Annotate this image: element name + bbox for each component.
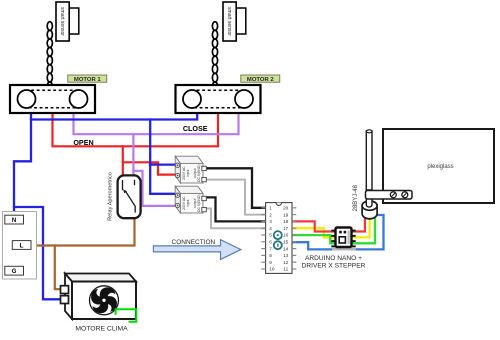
svg-text:19: 19 [283, 212, 289, 217]
svg-text:14: 14 [283, 246, 289, 251]
svg-text:13: 13 [283, 253, 289, 258]
svg-text:3: 3 [269, 219, 272, 224]
svg-text:4: 4 [269, 226, 272, 231]
svg-text:MOTOR 2: MOTOR 2 [247, 77, 274, 83]
svg-text:17: 17 [283, 226, 289, 231]
svg-text:10: 10 [269, 267, 275, 272]
svg-text:MOTOR 1: MOTOR 1 [74, 77, 101, 83]
svg-text:DC 5(GND): DC 5(GND) [197, 194, 201, 212]
svg-text:input: input [186, 199, 190, 206]
svg-text:9: 9 [269, 260, 272, 265]
svg-text:20: 20 [283, 206, 289, 211]
svg-text:8: 8 [269, 253, 272, 258]
svg-text:6: 6 [269, 240, 272, 245]
svg-text:28BYJ-48: 28BYJ-48 [353, 184, 359, 211]
svg-text:7: 7 [269, 246, 272, 251]
svg-text:Relay Aperometrico: Relay Aperometrico [108, 172, 114, 221]
svg-text:OPEN: OPEN [73, 138, 93, 147]
svg-text:11: 11 [283, 267, 288, 272]
svg-text:G: G [12, 269, 17, 275]
svg-text:smart sensor: smart sensor [226, 7, 232, 36]
svg-text:2: 2 [269, 212, 272, 217]
svg-text:N: N [12, 218, 16, 224]
svg-text:5: 5 [269, 233, 272, 238]
svg-text:1: 1 [269, 206, 272, 211]
svg-text:CONNECTION: CONNECTION [172, 239, 216, 246]
svg-text:12: 12 [283, 260, 289, 265]
svg-text:18: 18 [283, 219, 289, 224]
svg-text:ARDUINO NANO +: ARDUINO NANO + [305, 255, 362, 262]
svg-text:16: 16 [283, 233, 289, 238]
svg-text:DC 5(GND): DC 5(GND) [197, 164, 201, 182]
svg-text:230V AC: 230V AC [182, 196, 186, 210]
svg-text:15: 15 [283, 240, 289, 245]
svg-text:input: input [186, 169, 190, 176]
svg-text:MOTORE CLIMA: MOTORE CLIMA [75, 325, 128, 332]
svg-text:DRIVER X STEPPER: DRIVER X STEPPER [302, 262, 366, 269]
svg-text:plexiglass: plexiglass [427, 164, 453, 170]
svg-text:L: L [20, 244, 24, 250]
svg-text:230V AC: 230V AC [182, 166, 186, 180]
svg-text:smart sensor: smart sensor [59, 7, 65, 36]
svg-text:CLOSE: CLOSE [183, 124, 208, 133]
